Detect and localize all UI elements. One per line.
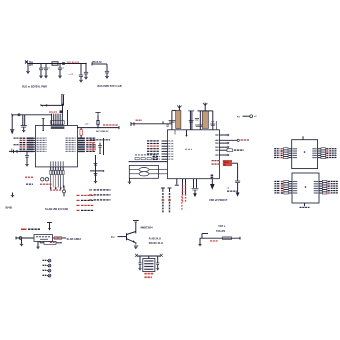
svg-text:TXS+PS: TXS+PS [216,230,226,233]
svg-text:RXXXX 34..K: RXXXX 34..K [149,242,164,245]
svg-text:B/4B: B/4B [6,206,12,210]
svg-text:FB1 BLM18: FB1 BLM18 [67,62,80,64]
svg-text:SLAB ARRA: SLAB ARRA [67,238,82,241]
svg-text:SLAB HW 24 FASE: SLAB HW 24 FASE [45,207,68,211]
svg-text:BUS PWR BYP 0.1UF: BUS PWR BYP 0.1UF [98,85,123,88]
svg-text:R-AB 34..K: R-AB 34..K [149,237,162,240]
svg-text:+3V: +3V [85,124,89,126]
svg-text:VBUS 5V: VBUS 5V [92,62,102,64]
svg-text:USB uP PINOUT: USB uP PINOUT [209,199,228,202]
svg-text:MMBT3904: MMBT3904 [141,226,154,229]
svg-text:N/C USB-5V: N/C USB-5V [96,131,109,133]
svg-text:= C2: = C2 [69,74,74,76]
svg-text:VCP L: VCP L [218,225,226,228]
svg-text:RLD to BD7E4L PWR: RLD to BD7E4L PWR [22,86,47,89]
